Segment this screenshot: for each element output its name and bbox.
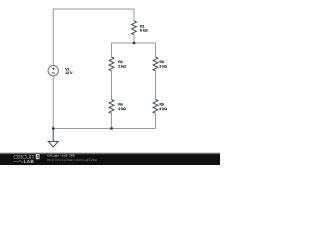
resistor R4 [109,100,114,114]
label R1 6 kOhm [140,24,148,32]
footer text line 1 [47,153,75,157]
svg-text:4 kΩ: 4 kΩ [118,107,126,111]
wire R5 to bottom rail [155,113,157,128]
svg-text:circ.apr : xo2_26b: circ.apr : xo2_26b [47,153,75,157]
wire node A horizontal [112,42,156,44]
svg-text:6 kΩ: 6 kΩ [140,29,148,33]
wire R2 to R4 [111,71,113,100]
svg-text:LAB: LAB [24,159,35,164]
label R5 9 kOhm [159,103,167,111]
V1 minus sign [52,72,55,74]
footer text line 2 [47,158,97,162]
svg-text:12 V: 12 V [65,71,73,75]
wire R3 to R5 [155,71,157,100]
resistor R2 [109,57,114,71]
resistor R1 [132,21,137,35]
svg-text:9 kΩ: 9 kΩ [159,107,167,111]
resistor R3 [153,57,158,71]
wire R1 bottom to node A [133,35,135,43]
ground [48,129,58,148]
wire node A to R3 [155,43,157,57]
wire top from V1 to R1 [53,9,134,66]
voltage source V1 [48,66,58,76]
resistor R5 [153,100,158,114]
wire node A to R2 [111,43,113,57]
footer logo LAB [24,159,35,164]
V1 plus sign [52,67,55,70]
footer logo CIRCUIT [13,154,35,161]
label V1 12 V [65,68,73,76]
svg-text:2 kΩ: 2 kΩ [118,64,126,68]
node C junction dot (V1/ground on bottom rail) [52,127,54,129]
node A junction dot [133,42,135,44]
svg-text:http://circuitlab.com/cug526a: http://circuitlab.com/cug526a [47,158,97,162]
footer logo white box with square wave [36,154,40,159]
label R3 3 kOhm [159,60,167,68]
node B junction dot (R4 branch to bottom rail) [110,127,112,129]
svg-text:3 kΩ: 3 kΩ [159,64,167,68]
wire V1 bottom to bottom rail [52,76,54,129]
wire bottom rail [53,128,155,130]
label R4 4 kOhm [118,103,126,111]
label R2 2 kOhm [118,60,126,68]
footer logo waveform [14,160,23,162]
wire R4 to bottom rail [111,113,113,128]
